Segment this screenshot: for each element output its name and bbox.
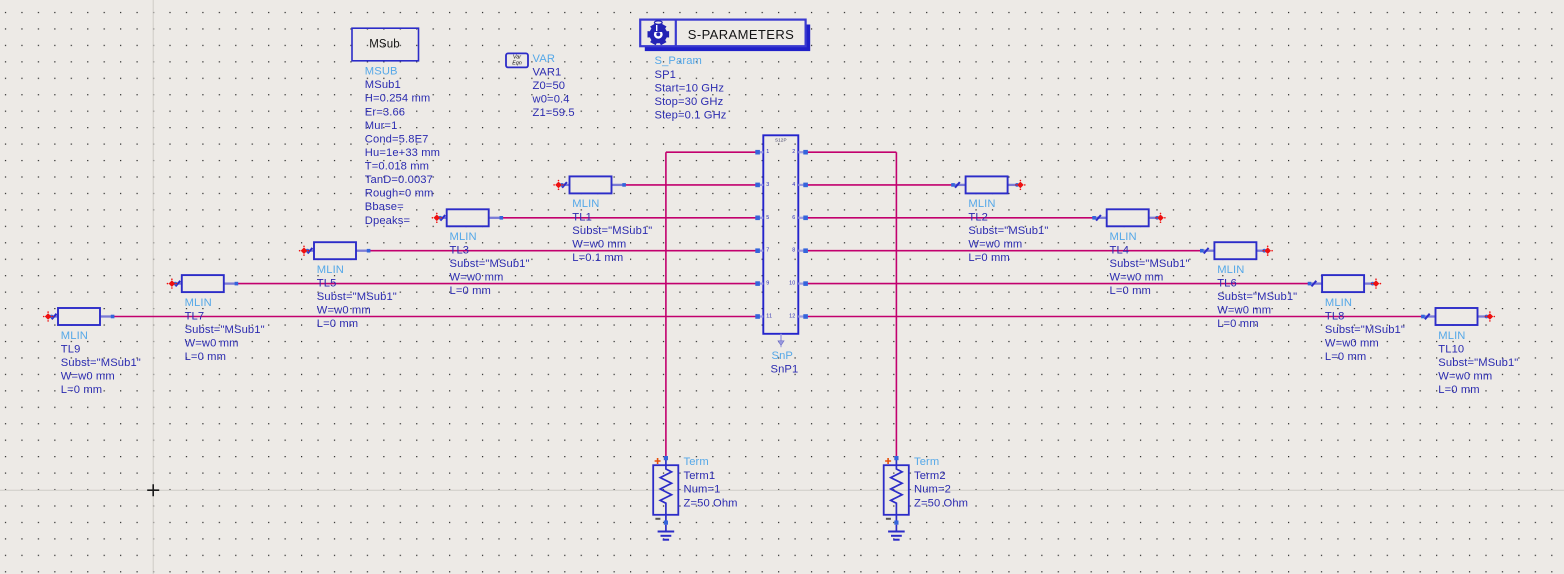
svg-text:5: 5 xyxy=(766,215,769,221)
svg-text:Z0=50: Z0=50 xyxy=(533,80,566,92)
VAR equation icon xyxy=(506,53,528,67)
svg-text:TL4: TL4 xyxy=(1110,245,1130,257)
svg-text:TL6: TL6 xyxy=(1217,278,1237,290)
svg-text:12: 12 xyxy=(789,314,795,320)
svg-text:11: 11 xyxy=(766,314,772,320)
svg-text:Subst="MSub1": Subst="MSub1" xyxy=(1325,324,1405,336)
MLIN TL1 symbol xyxy=(553,176,626,193)
svg-text:SP1: SP1 xyxy=(655,69,677,81)
svg-text:Subst="MSub1": Subst="MSub1" xyxy=(1438,357,1518,369)
svg-text:W=w0 mm: W=w0 mm xyxy=(1325,337,1379,349)
svg-text:8: 8 xyxy=(792,248,795,254)
svg-text:W=w0 mm: W=w0 mm xyxy=(1438,370,1492,382)
VAR VAR1 value labels xyxy=(532,53,575,119)
svg-text:Subst="MSub1": Subst="MSub1" xyxy=(317,291,397,303)
wire TL9 to SnP pin 11 xyxy=(113,316,758,318)
svg-text:S12P: S12P xyxy=(775,137,787,142)
svg-text:Subst="MSub1": Subst="MSub1" xyxy=(61,357,141,369)
svg-text:1: 1 xyxy=(766,149,769,155)
svg-text:W=w0 mm: W=w0 mm xyxy=(968,239,1022,251)
svg-text:L=0 mm: L=0 mm xyxy=(185,351,226,363)
svg-text:Subst="MSub1": Subst="MSub1" xyxy=(1110,258,1190,270)
svg-text:Num=2: Num=2 xyxy=(914,484,951,496)
Term Term1 xyxy=(653,456,678,525)
svg-text:TL7: TL7 xyxy=(185,310,205,322)
svg-text:L=0 mm: L=0 mm xyxy=(1110,285,1151,297)
MLIN TL7 labels xyxy=(185,297,265,363)
MLIN TL3 labels xyxy=(450,231,530,297)
Term Term2 labels xyxy=(914,456,968,510)
wire SnP pin 12 to TL10 xyxy=(806,316,1427,318)
MLIN TL3 symbol xyxy=(432,209,504,226)
MLIN TL6 labels xyxy=(1217,264,1297,330)
MLIN TL4 labels xyxy=(1110,231,1190,297)
svg-text:L=0 mm: L=0 mm xyxy=(317,318,358,330)
svg-text:TL3: TL3 xyxy=(450,245,470,257)
svg-text:L=0 mm: L=0 mm xyxy=(1217,318,1258,330)
svg-text:Subst="MSub1": Subst="MSub1" xyxy=(185,324,265,336)
svg-text:MLIN: MLIN xyxy=(1325,297,1352,309)
svg-text:TL9: TL9 xyxy=(61,343,81,355)
svg-text:Subst="MSub1": Subst="MSub1" xyxy=(572,225,652,237)
svg-text:MLIN: MLIN xyxy=(317,264,344,276)
svg-text:L=0 mm: L=0 mm xyxy=(1325,351,1366,363)
MLIN TL2 symbol xyxy=(951,176,1025,193)
svg-text:MSub: MSub xyxy=(369,39,400,51)
svg-text:3: 3 xyxy=(766,182,769,188)
svg-text:Eqn: Eqn xyxy=(512,61,522,67)
svg-text:Z=50 Ohm: Z=50 Ohm xyxy=(914,497,968,509)
S_Param SP1 labels xyxy=(655,55,727,121)
svg-text:Step=0.1 GHz: Step=0.1 GHz xyxy=(655,110,727,122)
MLIN TL9 labels xyxy=(61,330,141,396)
wire SnP pin 6 to TL4 xyxy=(806,217,1098,219)
svg-text:SnP: SnP xyxy=(772,350,794,362)
svg-text:Term2: Term2 xyxy=(914,470,946,482)
svg-text:Mur=1: Mur=1 xyxy=(365,120,398,132)
svg-text:Hu=1e+33 mm: Hu=1e+33 mm xyxy=(365,147,440,159)
ground below Term2 xyxy=(888,525,905,540)
svg-text:L=0 mm: L=0 mm xyxy=(450,285,491,297)
svg-text:H=0.254 mm: H=0.254 mm xyxy=(365,93,431,105)
svg-text:VAR: VAR xyxy=(533,53,556,65)
MLIN TL10 symbol xyxy=(1421,308,1495,325)
MLIN TL4 symbol xyxy=(1092,209,1165,226)
svg-text:W=w0 mm: W=w0 mm xyxy=(185,337,239,349)
svg-text:W=w0 mm: W=w0 mm xyxy=(572,239,626,251)
MLIN TL6 symbol xyxy=(1200,242,1273,259)
svg-text:Z1=59.5: Z1=59.5 xyxy=(533,107,575,119)
svg-text:TL10: TL10 xyxy=(1438,343,1464,355)
wire TL5 to SnP pin 7 xyxy=(369,250,758,252)
svg-text:S_Param: S_Param xyxy=(655,55,702,67)
svg-text:W=w0 mm: W=w0 mm xyxy=(1217,305,1271,317)
wire Term2 vertical xyxy=(895,152,897,458)
svg-text:W=w0 mm: W=w0 mm xyxy=(1110,272,1164,284)
svg-text:TL8: TL8 xyxy=(1325,310,1345,322)
svg-text:L=0 mm: L=0 mm xyxy=(61,384,102,396)
svg-text:Term: Term xyxy=(684,456,709,468)
svg-text:MLIN: MLIN xyxy=(61,330,88,342)
svg-text:Start=10 GHz: Start=10 GHz xyxy=(655,82,725,94)
svg-text:L=0 mm: L=0 mm xyxy=(1438,384,1479,396)
MLIN TL5 symbol xyxy=(299,242,371,259)
wire SnP pin 8 to TL6 xyxy=(806,250,1205,252)
svg-text:9: 9 xyxy=(766,281,769,287)
Term Term1 labels xyxy=(684,456,738,510)
MSUB MSub1 parameter labels xyxy=(365,66,440,227)
wire TL3 to SnP pin 5 xyxy=(499,217,758,219)
svg-text:MSUB: MSUB xyxy=(365,66,398,78)
svg-text:MLIN: MLIN xyxy=(185,297,212,309)
svg-text:Subst="MSub1": Subst="MSub1" xyxy=(1217,291,1297,303)
svg-text:W=w0 mm: W=w0 mm xyxy=(450,272,504,284)
MLIN TL8 labels xyxy=(1325,297,1405,363)
MLIN TL1 labels xyxy=(572,198,652,264)
svg-text:Rough=0 mm: Rough=0 mm xyxy=(365,188,434,200)
svg-text:7: 7 xyxy=(766,248,769,254)
svg-text:Term1: Term1 xyxy=(684,470,716,482)
svg-text:10: 10 xyxy=(789,281,795,287)
svg-text:Bbase=: Bbase= xyxy=(365,201,404,213)
svg-text:Stop=30 GHz: Stop=30 GHz xyxy=(655,96,724,108)
svg-text:Cond=5.8E7: Cond=5.8E7 xyxy=(365,133,429,145)
svg-text:MSub1: MSub1 xyxy=(365,79,401,91)
svg-text:MLIN: MLIN xyxy=(572,198,599,210)
svg-text:6: 6 xyxy=(792,215,795,221)
svg-text:MLIN: MLIN xyxy=(968,198,995,210)
MLIN TL7 symbol xyxy=(167,275,239,292)
wire SnP pin 4 to TL2 xyxy=(806,184,957,186)
SnP1 pin numbers xyxy=(766,149,795,319)
SnP1 12-port S-parameter block symbol xyxy=(755,135,808,347)
svg-text:TanD=0.0037: TanD=0.0037 xyxy=(365,174,433,186)
svg-text:Subst="MSub1": Subst="MSub1" xyxy=(968,225,1048,237)
svg-text:Term: Term xyxy=(914,456,939,468)
svg-text:Num=1: Num=1 xyxy=(684,484,721,496)
svg-text:TL5: TL5 xyxy=(317,278,337,290)
wire SnP pin 1 to Term1 horizontal xyxy=(666,151,758,153)
svg-text:4: 4 xyxy=(792,182,795,188)
ground below Term1 xyxy=(658,525,675,540)
wire TL1 to SnP pin 3 xyxy=(624,184,758,186)
MLIN TL2 labels xyxy=(968,198,1048,264)
svg-text:MLIN: MLIN xyxy=(1438,330,1465,342)
svg-text:MLIN: MLIN xyxy=(1217,264,1244,276)
svg-text:Subst="MSub1": Subst="MSub1" xyxy=(450,258,530,270)
wire SnP pin 10 to TL8 xyxy=(806,283,1313,285)
svg-text:2: 2 xyxy=(792,149,795,155)
svg-text:T=0.018 mm: T=0.018 mm xyxy=(365,161,429,173)
MLIN TL8 symbol xyxy=(1308,275,1382,292)
wire Term1 vertical xyxy=(665,152,667,458)
MLIN TL10 labels xyxy=(1438,330,1518,396)
svg-text:S-PARAMETERS: S-PARAMETERS xyxy=(688,27,794,42)
svg-text:SnP1: SnP1 xyxy=(771,364,799,376)
svg-text:VAR1: VAR1 xyxy=(533,67,562,79)
svg-text:Er=3.66: Er=3.66 xyxy=(365,106,405,118)
svg-text:W=w0 mm: W=w0 mm xyxy=(61,370,115,382)
svg-text:TL2: TL2 xyxy=(968,212,988,224)
svg-text:W=w0 mm: W=w0 mm xyxy=(317,305,371,317)
MSUB substrate box MSub xyxy=(352,28,419,61)
Term Term2 xyxy=(884,456,909,525)
svg-text:MLIN: MLIN xyxy=(1110,231,1137,243)
svg-text:Z=50 Ohm: Z=50 Ohm xyxy=(684,497,738,509)
svg-text:w0=0.4: w0=0.4 xyxy=(532,94,570,106)
origin marker xyxy=(147,484,159,496)
wire SnP pin 2 to Term2 horizontal xyxy=(806,151,897,153)
svg-text:L=0 mm: L=0 mm xyxy=(968,252,1009,264)
svg-text:Dpeaks=: Dpeaks= xyxy=(365,215,410,227)
svg-text:L=0.1 mm: L=0.1 mm xyxy=(572,252,623,264)
svg-text:TL1: TL1 xyxy=(572,212,592,224)
svg-text:MLIN: MLIN xyxy=(450,231,477,243)
MLIN TL5 labels xyxy=(317,264,397,330)
S-PARAMETERS simulation controller box xyxy=(640,20,810,51)
MLIN TL9 symbol xyxy=(43,308,115,325)
wire TL7 to SnP pin 9 xyxy=(237,283,758,285)
